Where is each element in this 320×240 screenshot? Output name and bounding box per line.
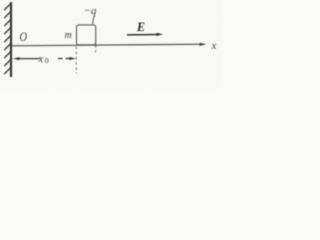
small dash below right edge — [95, 50, 97, 53]
wall hatching — [4, 4, 11, 75]
block m — [77, 25, 96, 45]
x0 dimension left line — [19, 58, 40, 60]
x-axis arrowhead — [200, 43, 207, 46]
E arrowhead — [157, 33, 164, 36]
E field arrow — [127, 34, 159, 36]
leader line from -q to block — [93, 16, 94, 24]
block right edge extension below axis — [95, 44, 97, 48]
x0 dimension right dashed line — [58, 58, 70, 60]
wall — [10, 2, 12, 77]
x0 dimension left arrowhead — [13, 57, 20, 60]
x0 dimension right arrowhead — [69, 57, 76, 60]
x-axis — [12, 44, 204, 46]
vertical dashed line at block left edge — [75, 47, 77, 74]
